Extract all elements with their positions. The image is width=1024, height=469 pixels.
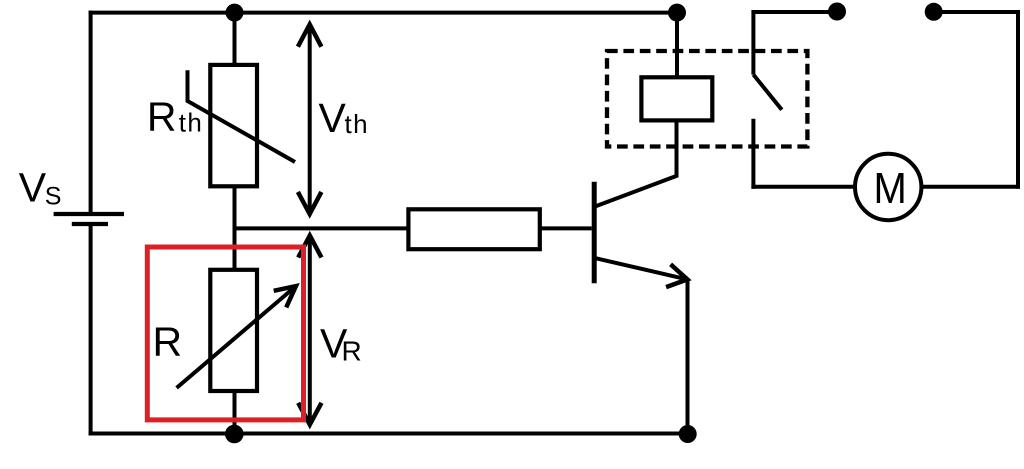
- battery VS short plate: [72, 222, 108, 226]
- relay switch fixed contact wire: [751, 119, 755, 189]
- svg-text:V: V: [319, 95, 347, 141]
- wire left rail upper: [89, 11, 93, 212]
- wire top dot to thermistor: [233, 13, 237, 66]
- wire emitter to bottom rail: [686, 279, 690, 433]
- wire top rail: [89, 11, 677, 15]
- relay switch blade: [753, 75, 781, 110]
- node junction dot top mid: [668, 4, 686, 22]
- wire top dot to relay coil: [675, 13, 679, 78]
- svg-text:R: R: [342, 335, 362, 366]
- svg-text:R: R: [153, 319, 183, 365]
- battery VS long plate: [54, 212, 124, 216]
- svg-text:R: R: [147, 93, 177, 139]
- arrow Vth: [308, 25, 312, 214]
- svg-text:th: th: [345, 109, 369, 139]
- svg-text:M: M: [874, 163, 907, 212]
- variable resistor R body: [210, 270, 257, 391]
- wire left rail lower: [89, 224, 93, 436]
- wire base resistor to transistor: [540, 226, 592, 230]
- svg-text:S: S: [45, 182, 62, 210]
- thermistor Rth diagonal with hook: [188, 70, 296, 162]
- highlight red box around R: [147, 247, 303, 420]
- relay switch common wire: [751, 10, 755, 75]
- wire switch top to supply dot: [753, 10, 837, 14]
- relay dashed enclosure: [607, 51, 807, 147]
- wire motor right horizontal: [921, 185, 1020, 189]
- wire collector vertical to relay coil: [675, 123, 679, 178]
- wire motor left horizontal: [751, 185, 855, 189]
- node supply terminal dot left: [828, 3, 846, 21]
- node supply terminal dot right: [925, 3, 943, 21]
- transistor Q1 collector diagonal: [595, 176, 678, 207]
- variable resistor R arrow: [177, 286, 296, 388]
- transistor Q1 base bar: [592, 182, 597, 284]
- transistor Q1 emitter diagonal with arrow: [596, 258, 687, 279]
- node junction dot bottom left: [225, 425, 244, 444]
- base resistor body: [408, 209, 539, 249]
- arrow VR: [308, 236, 312, 424]
- wire mid branch to base resistor: [235, 226, 409, 230]
- svg-text:th: th: [179, 108, 203, 138]
- wire right rail: [1016, 12, 1020, 189]
- wire thermistor to R: [233, 186, 237, 270]
- wire supply dot right to corner: [934, 10, 1020, 14]
- node junction dot bottom right: [679, 425, 697, 443]
- wire bottom rail: [89, 432, 688, 436]
- motor M circle: [855, 154, 921, 220]
- node junction dot top left: [226, 4, 244, 22]
- svg-text:V: V: [19, 164, 47, 210]
- relay coil body: [641, 77, 712, 120]
- thermistor Rth body: [210, 65, 257, 186]
- wire R to bottom rail: [233, 391, 237, 434]
